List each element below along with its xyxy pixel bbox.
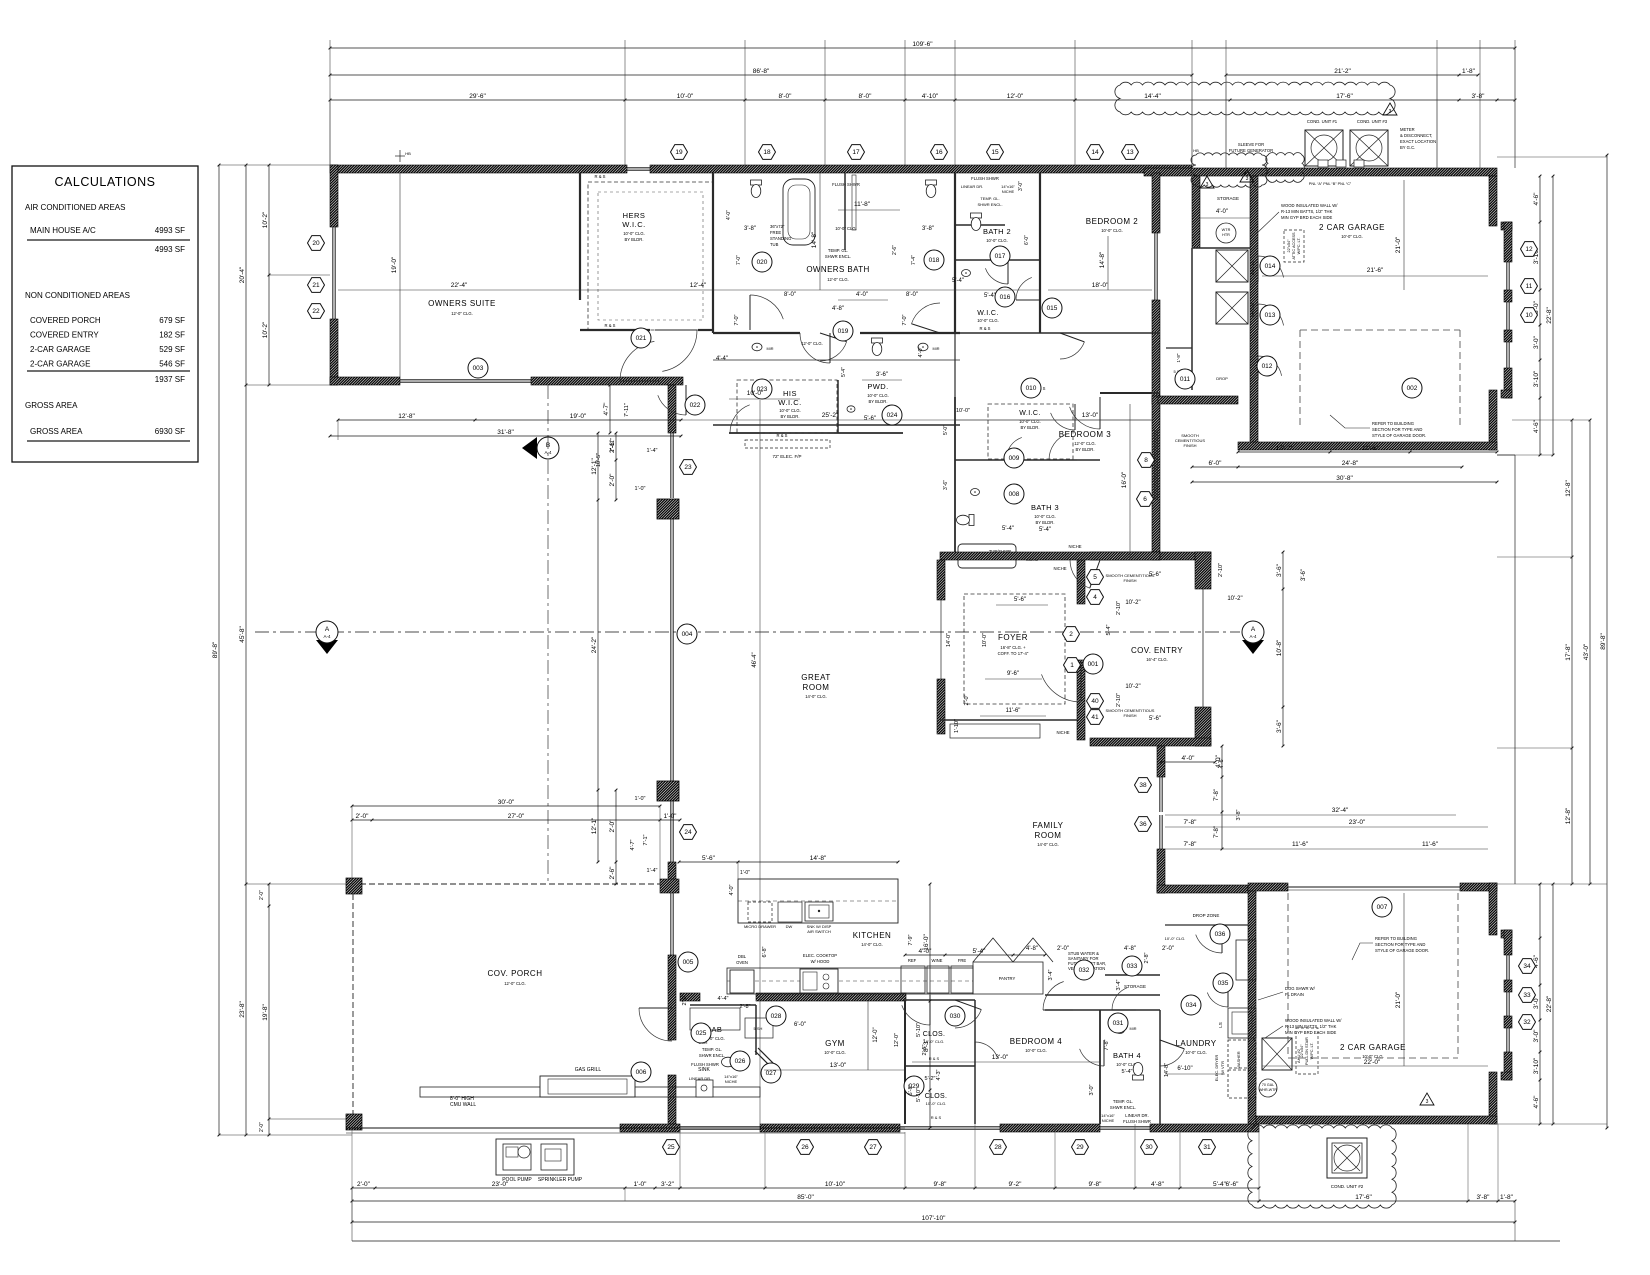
gym dims bbox=[764, 1069, 905, 1071]
svg-text:LINEAR DR.: LINEAR DR. bbox=[689, 1076, 711, 1081]
svg-text:7'-8": 7'-8" bbox=[1214, 826, 1220, 838]
svg-text:12'-8": 12'-8" bbox=[1565, 807, 1572, 824]
svg-text:30: 30 bbox=[1145, 1144, 1153, 1151]
svg-text:032: 032 bbox=[1079, 967, 1090, 974]
svg-text:13'-0": 13'-0" bbox=[992, 1054, 1009, 1061]
foyer west wall w/ door 001 bbox=[1077, 556, 1085, 604]
owners suite dims bbox=[338, 289, 1040, 291]
svg-text:WHR-WTR: WHR-WTR bbox=[1259, 1088, 1277, 1092]
storage corridor west wall bbox=[1192, 176, 1200, 248]
svg-text:41: 41 bbox=[1091, 714, 1099, 721]
pantry/fam wall bbox=[1045, 994, 1160, 996]
garage top exterior wall bbox=[1144, 168, 1497, 176]
svg-text:10'-0": 10'-0" bbox=[956, 408, 970, 414]
svg-text:ROOM: ROOM bbox=[803, 683, 830, 692]
porch dims bbox=[352, 819, 680, 821]
bath4 sink bbox=[1116, 1027, 1125, 1034]
svg-text:679 SF: 679 SF bbox=[159, 316, 185, 325]
svg-text:SHWR ENCL.: SHWR ENCL. bbox=[977, 202, 1002, 207]
svg-text:4'-0": 4'-0" bbox=[729, 884, 735, 895]
svg-text:COND. UNIT #2: COND. UNIT #2 bbox=[1331, 1184, 1364, 1189]
garage2 right wall bbox=[1489, 883, 1497, 935]
bath4 west wall bbox=[1099, 1010, 1101, 1124]
door 010 arc bbox=[1070, 407, 1100, 429]
svg-text:3'-6": 3'-6" bbox=[876, 372, 888, 378]
family room east wall bbox=[1157, 746, 1165, 777]
svg-text:031: 031 bbox=[1113, 1020, 1124, 1027]
garage1 west wall bbox=[1250, 176, 1258, 449]
svg-text:NICHE: NICHE bbox=[1056, 730, 1069, 735]
svg-text:4: 4 bbox=[1093, 594, 1097, 601]
svg-text:22'-0": 22'-0" bbox=[1364, 1059, 1381, 1066]
dbl oven bbox=[730, 970, 754, 993]
cab toilet bbox=[722, 1057, 740, 1068]
svg-text:KITCHEN: KITCHEN bbox=[853, 931, 892, 940]
owners vanity bbox=[713, 359, 960, 361]
svg-text:4'-0": 4'-0" bbox=[726, 210, 732, 220]
svg-text:3: 3 bbox=[1389, 109, 1392, 115]
svg-text:BY BLDR.: BY BLDR. bbox=[780, 414, 799, 419]
svg-text:14'-0" CLG.: 14'-0" CLG. bbox=[805, 694, 827, 699]
svg-text:5'-4": 5'-4" bbox=[1106, 624, 1112, 635]
gym north wall bbox=[756, 993, 906, 1001]
svg-text:6'-0": 6'-0" bbox=[794, 1022, 806, 1028]
svg-text:10'-0" CLG.: 10'-0" CLG. bbox=[1341, 234, 1363, 239]
svg-text:GAS GRILL: GAS GRILL bbox=[575, 1067, 602, 1073]
owners suite left exterior wall bbox=[330, 165, 338, 227]
svg-text:COFF. TO 17'-4": COFF. TO 17'-4" bbox=[998, 651, 1029, 656]
svg-text:W/ VTR: W/ VTR bbox=[1220, 1061, 1225, 1075]
svg-text:5'-6": 5'-6" bbox=[702, 855, 716, 862]
pull dn stair dashed bbox=[1296, 1028, 1318, 1074]
svg-text:5'-6": 5'-6" bbox=[864, 416, 876, 422]
svg-text:45'-8": 45'-8" bbox=[239, 626, 246, 643]
kitchen island bbox=[738, 879, 898, 923]
svg-text:4'-10": 4'-10" bbox=[922, 93, 939, 100]
svg-text:13'-0": 13'-0" bbox=[1082, 412, 1099, 419]
svg-text:FOYER: FOYER bbox=[998, 633, 1028, 642]
svg-text:2 CAR GARAGE: 2 CAR GARAGE bbox=[1319, 223, 1385, 232]
svg-text:22"x54": 22"x54" bbox=[1300, 1044, 1304, 1058]
svg-text:23: 23 bbox=[684, 464, 692, 471]
svg-text:HB: HB bbox=[405, 151, 411, 156]
svg-text:9'-2": 9'-2" bbox=[1009, 1181, 1023, 1188]
garage2 22-0 dim bbox=[1262, 1065, 1488, 1067]
svg-text:SHWR ENCL.: SHWR ENCL. bbox=[1110, 1105, 1136, 1110]
svg-text:LS: LS bbox=[1218, 1022, 1223, 1028]
svg-text:3'-8": 3'-8" bbox=[744, 226, 756, 232]
svg-text:MIR: MIR bbox=[767, 347, 774, 351]
svg-text:R & S: R & S bbox=[929, 1056, 940, 1061]
svg-text:NICHE: NICHE bbox=[725, 1079, 738, 1084]
svg-text:10'-0" CLG.: 10'-0" CLG. bbox=[867, 393, 889, 398]
svg-text:5'-10": 5'-10" bbox=[916, 1088, 922, 1102]
svg-text:PULL DN STAIR: PULL DN STAIR bbox=[1305, 1037, 1309, 1065]
hers wic south wall + door 021 bbox=[580, 329, 650, 331]
svg-text:7'-1": 7'-1" bbox=[643, 834, 649, 845]
svg-text:10'-2": 10'-2" bbox=[1125, 600, 1140, 606]
svg-text:WOOD INSULATED WALL W/: WOOD INSULATED WALL W/ bbox=[1281, 203, 1338, 208]
owners suite bottom exterior wall bbox=[330, 377, 400, 385]
svg-text:BATH 2: BATH 2 bbox=[983, 227, 1011, 236]
svg-text:18: 18 bbox=[763, 149, 771, 156]
svg-text:1'-0": 1'-0" bbox=[740, 870, 750, 876]
svg-text:SHWR ENCL.: SHWR ENCL. bbox=[699, 1053, 725, 1058]
svg-text:10'-0" CLG.: 10'-0" CLG. bbox=[623, 231, 645, 236]
svg-text:SLEEVE FOR: SLEEVE FOR bbox=[1238, 142, 1264, 147]
svg-text:REF: REF bbox=[908, 958, 917, 963]
hall dims bottom bbox=[905, 954, 1045, 956]
svg-text:GROSS AREA: GROSS AREA bbox=[25, 401, 78, 410]
storage room above bed4 bbox=[1105, 974, 1160, 976]
svg-text:11'-6": 11'-6" bbox=[1362, 445, 1379, 452]
svg-text:028: 028 bbox=[771, 1013, 782, 1020]
svg-text:MAIN HOUSE A/C: MAIN HOUSE A/C bbox=[30, 226, 96, 235]
svg-text:HIS: HIS bbox=[783, 389, 797, 398]
svg-text:12'-0": 12'-0" bbox=[1007, 93, 1024, 100]
svg-text:008: 008 bbox=[1009, 491, 1020, 498]
svg-text:32: 32 bbox=[1523, 1019, 1531, 1026]
ref wine fre bbox=[901, 966, 925, 993]
svg-text:NON CONDITIONED AREAS: NON CONDITIONED AREAS bbox=[25, 291, 130, 300]
svg-text:007: 007 bbox=[1377, 904, 1388, 911]
svg-text:20: 20 bbox=[312, 240, 320, 247]
svg-text:33: 33 bbox=[1523, 992, 1531, 999]
svg-text:FINISH: FINISH bbox=[1123, 578, 1136, 583]
bath2 west wall bbox=[954, 173, 956, 333]
svg-text:DROP: DROP bbox=[1216, 376, 1228, 381]
svg-text:3'-0": 3'-0" bbox=[1089, 1084, 1095, 1095]
svg-text:TEMP. GL.: TEMP. GL. bbox=[702, 1047, 722, 1052]
svg-text:STORAGE: STORAGE bbox=[1217, 196, 1239, 201]
svg-text:12'-0" CLG.: 12'-0" CLG. bbox=[801, 341, 823, 346]
pwd sink bbox=[847, 406, 855, 412]
svg-text:POOL PUMP: POOL PUMP bbox=[502, 1177, 532, 1183]
svg-text:29: 29 bbox=[1076, 1144, 1084, 1151]
svg-text:14'-8": 14'-8" bbox=[810, 855, 827, 862]
svg-text:2-CAR GARAGE: 2-CAR GARAGE bbox=[30, 345, 90, 354]
wic3 dashed bbox=[988, 404, 1073, 459]
svg-text:BATH 3: BATH 3 bbox=[1031, 503, 1059, 512]
section marker B bbox=[522, 437, 537, 459]
svg-text:16'-4" CLG.: 16'-4" CLG. bbox=[1146, 657, 1168, 662]
garage2 21-0 vert dim bbox=[1403, 893, 1405, 1066]
svg-text:7'-8": 7'-8" bbox=[1214, 789, 1220, 801]
svg-text:TEMP. GL.: TEMP. GL. bbox=[828, 248, 848, 253]
svg-text:86'-8": 86'-8" bbox=[753, 68, 770, 75]
porch outdoor kitchen counter bbox=[420, 1087, 760, 1097]
svg-text:5'-4": 5'-4" bbox=[952, 278, 964, 284]
svg-text:DW: DW bbox=[786, 924, 793, 929]
svg-text:BEDROOM 4: BEDROOM 4 bbox=[1010, 1037, 1063, 1046]
svg-text:40: 40 bbox=[1091, 698, 1099, 705]
svg-text:28: 28 bbox=[994, 1144, 1002, 1151]
svg-text:10'-0" CLG.: 10'-0" CLG. bbox=[1034, 514, 1056, 519]
bath4 toilet bbox=[1133, 1063, 1144, 1081]
door circle markers bbox=[468, 358, 488, 378]
svg-text:4'-3": 4'-3" bbox=[936, 1069, 942, 1080]
svg-text:W/PC. LT.: W/PC. LT. bbox=[1297, 238, 1301, 255]
svg-text:5 SH: 5 SH bbox=[754, 1026, 763, 1031]
svg-text:6'-0": 6'-0" bbox=[1024, 235, 1030, 245]
svg-text:70 GAL: 70 GAL bbox=[1262, 1083, 1274, 1087]
46-4 vertical dim bbox=[759, 400, 761, 1124]
svg-text:10'-0" CLG.: 10'-0" CLG. bbox=[1101, 228, 1123, 233]
svg-text:PANTRY: PANTRY bbox=[999, 976, 1016, 981]
svg-text:1'-0": 1'-0" bbox=[635, 796, 646, 802]
svg-text:46'-4": 46'-4" bbox=[752, 652, 758, 667]
svg-text:4'-0": 4'-0" bbox=[856, 292, 868, 298]
svg-text:10'-0" CLG.: 10'-0" CLG. bbox=[1025, 1048, 1047, 1053]
svg-text:14'-4": 14'-4" bbox=[1144, 93, 1161, 100]
door 019 arc bbox=[820, 342, 847, 361]
svg-text:2: 2 bbox=[1069, 631, 1073, 638]
svg-text:5'-4": 5'-4" bbox=[1039, 527, 1051, 533]
wic3/bath3 west wall bbox=[954, 397, 956, 560]
cond unit 2 cloud bbox=[1248, 1125, 1397, 1208]
svg-text:7'-11": 7'-11" bbox=[624, 403, 630, 417]
door 001 arc bbox=[1042, 674, 1082, 702]
svg-text:7'-8": 7'-8" bbox=[1184, 819, 1198, 826]
kitchen dims bbox=[679, 861, 898, 863]
svg-text:016: 016 bbox=[1000, 294, 1011, 301]
svg-text:REFER TO BUILDING: REFER TO BUILDING bbox=[1372, 421, 1414, 426]
svg-text:4993 SF: 4993 SF bbox=[155, 245, 185, 254]
bath3 sink bbox=[971, 489, 980, 496]
svg-text:BY BLDR.: BY BLDR. bbox=[1035, 520, 1054, 525]
svg-text:1'-8": 1'-8" bbox=[1500, 1194, 1514, 1201]
svg-text:2'-6": 2'-6" bbox=[892, 245, 898, 255]
svg-text:009: 009 bbox=[1009, 455, 1020, 462]
svg-text:22'-8": 22'-8" bbox=[1546, 307, 1553, 324]
svg-text:LINEAR DR.: LINEAR DR. bbox=[1125, 1113, 1149, 1118]
micro drawer bbox=[748, 902, 772, 922]
garage2 dashed parking + door bbox=[1287, 893, 1289, 1058]
wtr htr bbox=[1216, 223, 1236, 243]
svg-text:8'-0": 8'-0" bbox=[859, 93, 873, 100]
svg-text:30'-0": 30'-0" bbox=[498, 799, 515, 806]
32-4 23-0 dims bbox=[1165, 814, 1456, 816]
svg-text:COV. ENTRY: COV. ENTRY bbox=[1131, 646, 1183, 655]
svg-text:12'-0": 12'-0" bbox=[873, 1027, 879, 1042]
bath2 toilet bbox=[971, 213, 982, 231]
bath3 tub-shwr bbox=[958, 544, 1016, 568]
svg-text:13'-2": 13'-2" bbox=[1276, 445, 1293, 452]
owners bath linear drain bbox=[852, 175, 856, 230]
svg-text:10'-0" CLG.: 10'-0" CLG. bbox=[986, 238, 1008, 243]
svg-text:GREAT: GREAT bbox=[801, 673, 830, 682]
svg-text:BEDROOM 2: BEDROOM 2 bbox=[1086, 217, 1139, 226]
svg-text:& DISCONNECT,: & DISCONNECT, bbox=[1400, 133, 1432, 138]
svg-text:14'-8": 14'-8" bbox=[1099, 251, 1106, 268]
AHU#1 bbox=[1216, 250, 1248, 282]
svg-text:1'-4": 1'-4" bbox=[647, 868, 658, 874]
gas grill bbox=[540, 1076, 635, 1097]
svg-text:ELEC. DRYER: ELEC. DRYER bbox=[1214, 1055, 1219, 1082]
svg-text:546 SF: 546 SF bbox=[159, 360, 185, 369]
svg-text:2'-8": 2'-8" bbox=[1144, 952, 1150, 963]
svg-text:12'-0": 12'-0" bbox=[894, 1033, 900, 1047]
svg-text:ELEC. COOKTOP: ELEC. COOKTOP bbox=[803, 953, 837, 958]
svg-text:21'-0": 21'-0" bbox=[1395, 991, 1402, 1008]
svg-text:12'-8": 12'-8" bbox=[1565, 480, 1572, 497]
25-2 dim great room top bbox=[672, 419, 1152, 421]
svg-text:31'-8": 31'-8" bbox=[497, 429, 514, 436]
svg-text:MIR: MIR bbox=[933, 347, 940, 351]
garage1 bottom wall bbox=[1238, 442, 1497, 450]
svg-text:17'-6": 17'-6" bbox=[1336, 93, 1353, 100]
svg-text:17'-6": 17'-6" bbox=[1355, 1194, 1372, 1201]
triangle 3 markers bbox=[1383, 103, 1397, 115]
left dimension chains bbox=[218, 165, 220, 1135]
svg-text:21: 21 bbox=[312, 282, 320, 289]
bedroom2 dims bbox=[1048, 289, 1152, 291]
garage2 bottom wall bbox=[1256, 1116, 1497, 1124]
garage2 right bumpout bbox=[1501, 930, 1512, 938]
svg-text:NICHE: NICHE bbox=[1102, 1118, 1115, 1123]
svg-text:5'-6": 5'-6" bbox=[1014, 597, 1026, 603]
svg-text:3'-10": 3'-10" bbox=[1533, 1057, 1540, 1074]
svg-text:10'-10": 10'-10" bbox=[825, 1181, 846, 1188]
svg-text:10'-0" CLG.: 10'-0" CLG. bbox=[1185, 1050, 1207, 1055]
foyer niche bottom bbox=[940, 719, 1077, 721]
triangle 3 marker btm bbox=[1420, 1093, 1434, 1105]
svg-text:3'-6": 3'-6" bbox=[1276, 719, 1283, 733]
svg-text:A-4: A-4 bbox=[1249, 634, 1257, 639]
svg-text:HTR: HTR bbox=[1222, 233, 1230, 237]
misc extension lines bbox=[329, 100, 331, 165]
svg-text:19'-0": 19'-0" bbox=[570, 413, 587, 420]
svg-text:11'-6": 11'-6" bbox=[1292, 841, 1309, 848]
svg-text:12'-8": 12'-8" bbox=[398, 413, 415, 420]
svg-text:BY BLDR.: BY BLDR. bbox=[1075, 447, 1094, 452]
family room bottom wall to garage2 bbox=[1157, 885, 1256, 893]
svg-text:10'-0" CLG.: 10'-0" CLG. bbox=[977, 318, 999, 323]
svg-text:2'-10": 2'-10" bbox=[1116, 601, 1122, 615]
great room west glazing spine bbox=[668, 385, 676, 433]
owners hall south wall bbox=[713, 424, 960, 426]
svg-text:MIN GYP BRD EACH SIDE: MIN GYP BRD EACH SIDE bbox=[1281, 215, 1333, 220]
wic2 walls bbox=[955, 259, 1040, 261]
svg-text:7'-0": 7'-0" bbox=[902, 314, 908, 325]
hexagon markers left side bbox=[308, 236, 325, 251]
svg-text:3'-8": 3'-8" bbox=[922, 226, 934, 232]
svg-text:2'-0": 2'-0" bbox=[357, 1181, 371, 1188]
svg-text:4993 SF: 4993 SF bbox=[155, 226, 185, 235]
panel boxes on garage top wall bbox=[1318, 160, 1328, 167]
pantry bbox=[973, 962, 1043, 994]
svg-text:22'-8": 22'-8" bbox=[1546, 995, 1553, 1012]
misc hexagons bbox=[680, 460, 697, 475]
svg-text:LAUNDRY: LAUNDRY bbox=[1176, 1039, 1217, 1048]
svg-text:10'-0" CLG.: 10'-0" CLG. bbox=[926, 1101, 947, 1106]
svg-text:6'-8": 6'-8" bbox=[762, 946, 768, 957]
svg-text:38: 38 bbox=[1139, 782, 1147, 789]
svg-text:EXACT LOCATION: EXACT LOCATION bbox=[1400, 139, 1436, 144]
owners bath WC toilet bbox=[751, 180, 762, 198]
svg-text:2 CAR GARAGE: 2 CAR GARAGE bbox=[1340, 1043, 1406, 1052]
svg-text:10'-2": 10'-2" bbox=[1125, 684, 1140, 690]
svg-text:SECTION FOR TYPE AND: SECTION FOR TYPE AND bbox=[1372, 427, 1422, 432]
svg-text:3'-0": 3'-0" bbox=[1533, 1029, 1540, 1043]
svg-text:ATTIC ACCESS: ATTIC ACCESS bbox=[1292, 232, 1296, 260]
svg-text:3'-10": 3'-10" bbox=[1533, 370, 1540, 387]
bedroom3 dims bbox=[955, 419, 1152, 421]
svg-text:W/ HOOD: W/ HOOD bbox=[811, 959, 830, 964]
svg-text:030: 030 bbox=[950, 1013, 961, 1020]
bedroom4 west closets wall bbox=[904, 1000, 906, 1124]
column block 2 bbox=[657, 781, 679, 801]
hexagon markers right side bbox=[1521, 242, 1538, 257]
svg-text:AIR SWITCH: AIR SWITCH bbox=[807, 929, 831, 934]
AHU#2 xbox bbox=[1262, 1038, 1292, 1070]
svg-text:DOG SHWR W/: DOG SHWR W/ bbox=[1285, 986, 1316, 991]
svg-text:36: 36 bbox=[1139, 821, 1147, 828]
svg-text:2'-10": 2'-10" bbox=[1218, 563, 1224, 577]
svg-text:GYM: GYM bbox=[825, 1039, 845, 1048]
bedroom2 south wall + closet walls bbox=[955, 332, 1160, 334]
svg-text:6930 SF: 6930 SF bbox=[155, 427, 185, 436]
svg-text:6'-6": 6'-6" bbox=[1226, 1181, 1240, 1188]
svg-text:2'-0": 2'-0" bbox=[259, 890, 265, 900]
svg-text:11'-8": 11'-8" bbox=[854, 201, 871, 208]
svg-text:A-4: A-4 bbox=[323, 634, 331, 639]
svg-text:7'-8": 7'-8" bbox=[1184, 841, 1198, 848]
bedroom3 east wall lower bbox=[1152, 396, 1160, 560]
svg-text:R & S: R & S bbox=[605, 323, 616, 328]
svg-text:1'-0": 1'-0" bbox=[664, 813, 678, 820]
svg-text:10'-0": 10'-0" bbox=[982, 633, 988, 647]
porch left edge bbox=[352, 894, 354, 1118]
svg-text:CLOS.: CLOS. bbox=[925, 1093, 948, 1100]
svg-text:AHU #3: AHU #3 bbox=[1250, 302, 1255, 317]
svg-text:12'-0" CLG.: 12'-0" CLG. bbox=[827, 277, 849, 282]
svg-text:WTR: WTR bbox=[1222, 228, 1231, 232]
svg-text:FINISH: FINISH bbox=[1183, 443, 1196, 448]
owners entry door 003 arc bbox=[620, 341, 654, 381]
svg-text:FRE: FRE bbox=[958, 958, 967, 963]
garage1 right wall upper bbox=[1489, 176, 1497, 226]
great room left inner dims bbox=[597, 433, 599, 862]
svg-text:25'-2": 25'-2" bbox=[822, 412, 839, 419]
svg-text:BY G.C.: BY G.C. bbox=[1400, 145, 1415, 150]
svg-text:BEDROOM 3: BEDROOM 3 bbox=[1059, 430, 1112, 439]
svg-text:14'-0" CLG.: 14'-0" CLG. bbox=[1037, 842, 1059, 847]
svg-text:14'-0": 14'-0" bbox=[946, 633, 952, 647]
svg-text:4'-0": 4'-0" bbox=[1182, 755, 1196, 762]
extra door arcs bbox=[985, 268, 1008, 284]
svg-text:12'-4": 12'-4" bbox=[690, 282, 707, 289]
svg-text:7'-4": 7'-4" bbox=[911, 255, 917, 265]
svg-text:W.I.C.: W.I.C. bbox=[778, 398, 801, 407]
svg-text:7'-9": 7'-9" bbox=[908, 934, 914, 945]
kitchen/cab west region wall bbox=[680, 993, 700, 1001]
svg-text:22"x54": 22"x54" bbox=[1287, 239, 1291, 253]
owners bath shower partition bbox=[844, 173, 846, 250]
svg-text:2-CAR GARAGE: 2-CAR GARAGE bbox=[30, 360, 90, 369]
svg-text:NICHE: NICHE bbox=[1053, 566, 1066, 571]
right dimension chains bbox=[1606, 155, 1608, 1128]
svg-text:NICHE: NICHE bbox=[1068, 544, 1081, 549]
svg-text:WOOD INSULATED WALL W/: WOOD INSULATED WALL W/ bbox=[1285, 1018, 1342, 1023]
svg-text:026: 026 bbox=[735, 1058, 746, 1065]
svg-text:9'-8": 9'-8" bbox=[1089, 1181, 1103, 1188]
AHU#3 bbox=[1216, 292, 1248, 324]
svg-text:002: 002 bbox=[1407, 385, 1418, 392]
svg-text:11'-6": 11'-6" bbox=[1006, 708, 1021, 714]
svg-text:32'-4": 32'-4" bbox=[1332, 807, 1349, 814]
svg-text:018: 018 bbox=[929, 257, 940, 264]
